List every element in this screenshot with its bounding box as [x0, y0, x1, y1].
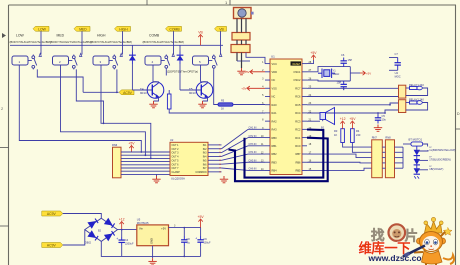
wire bridge bottom rail [101, 241, 200, 256]
svg-text:Y1: Y1 [333, 69, 337, 73]
svg-text:MED: MED [79, 27, 87, 31]
wire switch S2 down [76, 69, 103, 123]
svg-text:AC9V: AC9V [47, 244, 57, 248]
switch S5 [209, 55, 218, 70]
svg-text:(BODY/TAUGHT/VAC/Tec4u/BM): (BODY/TAUGHT/VAC/Tec4u/BM) [143, 40, 184, 44]
wire tag COMB drop [173, 31, 175, 54]
wire switch S1 down [37, 69, 60, 77]
driver U2 ULN2003A [170, 142, 208, 175]
svg-text:15P: 15P [348, 58, 353, 62]
opto U4 [399, 85, 406, 98]
arrow mark channel 2 [80, 53, 82, 56]
net label tag LOW [33, 26, 49, 31]
LED cathode marks [414, 176, 419, 178]
watermark seal zhao IC pian [371, 224, 418, 243]
IR filter F2 [231, 45, 250, 53]
power flag +5V at RN6 [129, 146, 133, 151]
bus wire 1 [245, 130, 324, 178]
svg-text:Vin: Vin [139, 227, 143, 231]
svg-text:+5V: +5V [241, 87, 246, 91]
svg-text:+12: +12 [119, 217, 125, 221]
svg-text:RB0: RB0 [272, 136, 278, 140]
wire RC6 to opto U4 [307, 96, 399, 98]
svg-text:240: 240 [356, 133, 361, 137]
svg-text:NC: NC [272, 78, 276, 82]
wire R6 to MCU RA1 [169, 109, 265, 113]
svg-text:+5V: +5V [366, 72, 371, 76]
svg-text:R3: R3 [334, 129, 338, 133]
wire relay K5 to T5 collector [200, 65, 202, 82]
arrow mark channel 1 [39, 53, 41, 56]
relay K4 [145, 56, 161, 65]
transistor T4 [147, 82, 164, 99]
diode D1 [131, 45, 133, 51]
svg-text:OUT 4: OUT 4 [172, 156, 180, 159]
svg-text:RC4: RC4 [295, 111, 301, 115]
frame zone tick right [456, 128, 460, 130]
wire MCU input CH rows [248, 128, 265, 130]
svg-text:OUT 7: OUT 7 [172, 167, 180, 170]
svg-text:(2)DPDT(B)Ther DPDT(a): (2)DPDT(B)Ther DPDT(a) [167, 69, 198, 73]
svg-text:DB02: DB02 [85, 242, 92, 245]
svg-text:10u: 10u [382, 118, 387, 122]
frame zone tick top 1 [147, 0, 230, 5]
wire T5 collector [201, 82, 208, 83]
svg-text:CLAMP: CLAMP [172, 171, 181, 174]
svg-text:HIGH: HIGH [119, 27, 128, 31]
microcontroller U1 [270, 59, 302, 175]
svg-text:C5: C5 [382, 114, 386, 118]
oscillator wires [307, 67, 350, 72]
wire MCU rows to RN7 RN8 [307, 154, 374, 158]
capacitor C8 [183, 228, 185, 236]
svg-text:+5V: +5V [244, 70, 249, 74]
svg-text:RC0: RC0 [295, 144, 301, 148]
resistor R5 [218, 103, 233, 106]
svg-text:RB3: RB3 [272, 160, 278, 164]
wire T4 collector [153, 82, 159, 83]
wire RC5 to opto U5 [307, 104, 390, 106]
ground T4 emitter [154, 97, 159, 101]
svg-text:+12: +12 [340, 117, 346, 121]
svg-text:COMMON: COMMON [195, 171, 206, 174]
svg-text:IN3: IN3 [203, 152, 207, 155]
capacitor C7b [341, 81, 347, 90]
switch S3 [109, 55, 118, 70]
wire RC4 to opto U5 [307, 112, 385, 114]
arrow mark channel 5 [220, 53, 222, 56]
relay K3 [93, 56, 109, 65]
arrow mark channel 4 [172, 53, 174, 56]
wire AC9V feed [83, 91, 119, 93]
ground T5 emitter [203, 97, 208, 101]
svg-text:CH5 IN: CH5 IN [249, 159, 257, 162]
IR receiver U8 [234, 8, 252, 19]
svg-text:+: + [195, 237, 197, 241]
LED D5 [416, 165, 418, 168]
capacitor C7 [395, 58, 401, 71]
svg-text:+5V: +5V [161, 227, 166, 231]
speaker B1 [307, 120, 320, 122]
svg-text:VSS: VSS [272, 86, 277, 90]
watermark mascot monkey [403, 217, 454, 265]
svg-text:RC2: RC2 [295, 128, 301, 132]
svg-text:ULQ2003A: ULQ2003A [171, 177, 185, 181]
svg-text:IN2: IN2 [203, 148, 207, 151]
svg-text:RB6: RB6 [295, 160, 301, 164]
svg-text:IN4: IN4 [203, 156, 207, 159]
svg-text:4MHz: 4MHz [333, 72, 340, 76]
svg-text:(BODY/TAUGHT/VAC/Tec4u/BM): (BODY/TAUGHT/VAC/Tec4u/BM) [50, 40, 91, 44]
MCU pin stubs and labels [261, 61, 312, 173]
svg-text:RC1: RC1 [295, 136, 301, 140]
LED D4 [416, 156, 418, 159]
svg-text:LOW: LOW [38, 27, 47, 31]
IR receiver legs [236, 19, 238, 33]
svg-text:VB: VB [198, 30, 203, 34]
svg-text:U5: U5 [137, 217, 141, 221]
resistor R4 [351, 129, 355, 143]
svg-text:RN7: RN7 [372, 136, 378, 140]
power flag +12V bridge [120, 222, 124, 227]
wires RN8 to LED column [382, 146, 385, 148]
svg-text:OUT 3: OUT 3 [172, 152, 180, 155]
wire top rail [10, 44, 223, 46]
wire AC top to bridge [63, 214, 102, 219]
svg-text:OSC2: OSC2 [293, 78, 301, 82]
capacitor C9 [200, 228, 202, 236]
svg-text:1K: 1K [334, 133, 337, 137]
wire LED taps [417, 150, 428, 151]
svg-text:9013: 9013 [189, 91, 196, 95]
relay K2 [53, 56, 69, 65]
svg-text:LOW: LOW [16, 34, 25, 38]
bus wire 2 [229, 138, 328, 182]
svg-text:15P: 15P [337, 81, 342, 85]
net label tag MED [74, 26, 90, 31]
wire R5 to MCU [233, 104, 265, 106]
inductor L1 [411, 142, 423, 146]
wires RN6 to U2 [121, 152, 170, 174]
net label tag COMB [166, 26, 182, 31]
relay K5 [193, 56, 209, 65]
svg-text:CH4 IN: CH4 IN [249, 151, 257, 154]
svg-text:(BODY/TAUGHT/VAC/Tec4u/BM): (BODY/TAUGHT/VAC/Tec4u/BM) [10, 40, 51, 44]
svg-text:RA3: RA3 [272, 128, 278, 132]
svg-text:AC9V: AC9V [123, 91, 133, 95]
svg-text:OUT 6: OUT 6 [172, 163, 180, 166]
svg-text:GND: GND [150, 238, 154, 244]
power flag +5V supply [198, 219, 202, 224]
svg-text:RA1: RA1 [272, 111, 278, 115]
ground IR [237, 68, 245, 75]
svg-text:RA0: RA0 [272, 103, 278, 107]
svg-text:VDD: VDD [272, 70, 278, 74]
svg-text:CH2 IN: CH2 IN [249, 135, 257, 138]
power flag +5V at MCU VDD [250, 70, 265, 74]
svg-text:(BODY/TAUGHT/VAC/Tec4u/BM): (BODY/TAUGHT/VAC/Tec4u/BM) [91, 40, 132, 44]
resistor network RN6 [113, 147, 122, 178]
svg-text:RA2: RA2 [272, 119, 278, 123]
wire relay K2 to ULN row2 [61, 65, 146, 155]
svg-text:www.dzsc.com: www.dzsc.com [368, 253, 430, 263]
net label tag VB [215, 26, 227, 31]
svg-text:U1: U1 [271, 55, 275, 59]
svg-text:RN8: RN8 [385, 136, 391, 140]
diode D2 [179, 45, 181, 51]
wire T5 base [180, 89, 201, 91]
svg-text:CH1 IN: CH1 IN [249, 127, 257, 130]
resistor network RN8 [385, 140, 394, 178]
wire RC7 to opto U4 [307, 87, 399, 89]
wire R3 down [343, 143, 374, 148]
switch S2 [69, 55, 78, 70]
ground ULN clamp [152, 176, 160, 183]
wire switch S5 to R5 [214, 69, 218, 104]
svg-text:RB1: RB1 [272, 144, 278, 148]
frame zone tick left [0, 148, 9, 227]
wire AC bottom to bridge [63, 230, 85, 245]
svg-text:U4: U4 [395, 71, 399, 75]
svg-text:IN7: IN7 [203, 167, 207, 170]
svg-text:100uF: 100uF [204, 242, 212, 245]
relay K1 [12, 56, 28, 65]
svg-text:BT MOTO1: BT MOTO1 [409, 137, 423, 141]
svg-text:RB4: RB4 [272, 169, 278, 173]
LED D3 [416, 147, 418, 150]
svg-text:2200uF: 2200uF [125, 243, 134, 246]
svg-text:RESET: RESET [293, 63, 302, 66]
wire IR out to MCU pin1 [246, 53, 265, 64]
svg-text:1K: 1K [221, 108, 224, 111]
switch S1 [28, 55, 37, 70]
svg-text:OUT 5: OUT 5 [172, 159, 180, 162]
power flag +5V above R4 [350, 121, 354, 126]
ground C5 [374, 125, 382, 132]
wire R4 down [352, 143, 374, 153]
svg-text:AC9V: AC9V [47, 212, 57, 216]
net label tag AC9V mid [119, 90, 134, 95]
power flag +5V at MCU VSS [247, 86, 265, 90]
power flag +5V at MCU pin28 [307, 60, 314, 64]
resistor network RN7 [372, 140, 383, 178]
svg-text:MC78L05: MC78L05 [137, 221, 149, 225]
svg-text:+5V: +5V [128, 141, 135, 145]
svg-text:RC7: RC7 [295, 86, 301, 90]
power flag right of crystal [350, 72, 360, 74]
wire 78L05 output [169, 227, 201, 229]
svg-text:IN1: IN1 [203, 144, 207, 147]
ground U2 input side [220, 176, 228, 183]
svg-text:CH3 IN: CH3 IN [249, 143, 257, 146]
svg-text:RB7: RB7 [295, 152, 301, 156]
svg-text:VCC: VCC [272, 62, 278, 66]
power flag VB [198, 35, 202, 40]
svg-text:+5V: +5V [349, 117, 356, 121]
svg-text:1L(BROWN/YELLOW): 1L(BROWN/YELLOW) [429, 148, 455, 152]
arrow mark channel 3 [120, 53, 122, 56]
svg-text:1T(BLUE/GREEN): 1T(BLUE/GREEN) [429, 158, 451, 162]
wire tag HIGH drop [122, 31, 124, 54]
wire switch S4 stub [165, 69, 167, 75]
capacitor C6 [341, 58, 347, 67]
svg-text:HIGH: HIGH [97, 34, 106, 38]
wire bridge output [118, 229, 137, 231]
wires U2 fan to MCU rows [222, 129, 249, 170]
svg-text:RN6: RN6 [112, 143, 118, 147]
svg-text:U2: U2 [170, 138, 174, 142]
svg-text:CH6 IN: CH6 IN [249, 168, 257, 171]
ground 78L05 [152, 246, 154, 259]
switch S4 [161, 55, 170, 70]
capacitor C4 [121, 230, 123, 237]
svg-text:NC: NC [272, 95, 276, 99]
resistor R6 [167, 94, 171, 109]
wire tag LOW drop [40, 31, 42, 54]
svg-text:R4: R4 [356, 129, 360, 133]
svg-text:OUT 1: OUT 1 [172, 144, 180, 147]
svg-text:MED: MED [57, 34, 65, 38]
svg-text:C7: C7 [395, 52, 399, 56]
transistor T5 [196, 82, 213, 99]
svg-text:OUT 2: OUT 2 [172, 148, 180, 151]
svg-text:VB: VB [219, 27, 224, 31]
svg-text:RC3: RC3 [295, 119, 301, 123]
wire relay K4 to T4 collector [152, 65, 154, 82]
capacitor C5 [377, 113, 379, 115]
net label tag HIGH [115, 26, 131, 31]
bridge rectifier B1 [85, 218, 118, 241]
svg-text:RC5: RC5 [295, 103, 301, 107]
net label tag AC9V top [42, 211, 63, 216]
svg-text:+: + [116, 237, 118, 241]
wire switch S3 to tag [116, 69, 118, 92]
wire relay K3 to ULN row3 [101, 65, 151, 158]
svg-text:MOC: MOC [395, 74, 401, 78]
crystal Y1 [318, 69, 335, 79]
opto U5 [399, 100, 406, 113]
svg-text:RB2: RB2 [272, 152, 278, 156]
svg-text:RB5: RB5 [295, 169, 301, 173]
svg-text:IN5: IN5 [203, 159, 207, 162]
power flag +12V above R3 [340, 121, 344, 126]
wire tag VB drop [220, 31, 222, 54]
svg-text:+5V: +5V [198, 215, 205, 219]
svg-text:C6: C6 [341, 53, 345, 57]
svg-text:RC6: RC6 [295, 95, 301, 99]
IR filter F1 [232, 33, 250, 41]
svg-text:+5V: +5V [310, 51, 317, 55]
svg-text:IN6: IN6 [203, 163, 207, 166]
svg-text:COMB: COMB [169, 27, 180, 31]
svg-text:.1u: .1u [187, 242, 191, 245]
svg-text:COMB: COMB [149, 34, 160, 38]
svg-text:OSC1: OSC1 [293, 70, 301, 74]
wire T4 base [132, 89, 152, 91]
wires U2 inputs fan [208, 145, 222, 174]
svg-text:9013: 9013 [140, 91, 147, 95]
resistor R3 [341, 129, 345, 143]
wire tag MED drop [81, 31, 83, 54]
wire relay K1 to ULN row1 [19, 65, 141, 152]
net label tag AC9V bottom [42, 243, 63, 248]
